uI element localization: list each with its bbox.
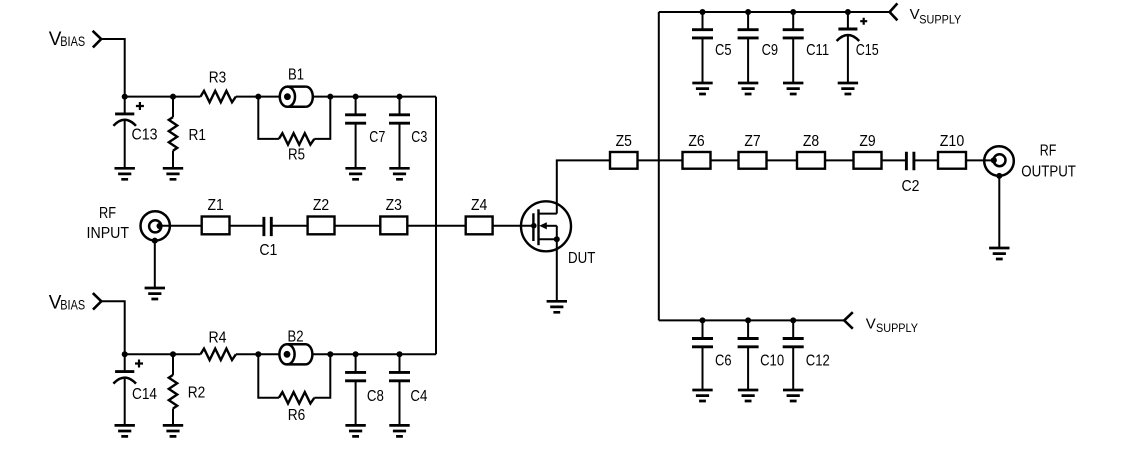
DUT body arrow [539,222,547,229]
svg-text:C3: C3 [411,129,427,146]
svg-text:RF: RF [1040,143,1057,160]
capacitor C12 [783,320,804,390]
capacitor C15 (polarized) [837,12,860,83]
label RF INPUT [87,205,130,242]
svg-text:C6: C6 [715,353,732,370]
ground C6 [692,390,712,401]
svg-text:C10: C10 [760,353,784,370]
DUT body stub [546,225,557,227]
node top bus junction dots [122,94,403,100]
svg-text:Z5: Z5 [616,133,632,150]
svg-text:B1: B1 [288,66,304,83]
capacitor C4 [389,354,410,425]
svg-text:SUPPLY: SUPPLY [919,12,961,26]
DUT drain stub [539,213,557,215]
ground C14 [115,425,135,436]
wire DUT drain up to output line [557,160,610,213]
ground C3 [389,168,409,179]
svg-text:INPUT: INPUT [87,225,130,242]
resistor R6 with parallel loop wires [258,354,330,403]
svg-text:Z3: Z3 [386,197,402,214]
wire top bias bus [125,96,436,98]
capacitor C11 [783,12,804,83]
node bottom supply dots [700,317,797,323]
impedance Z7 [739,152,767,169]
ground C15 [838,83,858,94]
wire C1 to Z2 [271,225,307,227]
wire RF input jack to ground [154,241,156,288]
svg-text:Z2: Z2 [313,197,329,214]
svg-text:C1: C1 [259,242,277,259]
svg-text:C14: C14 [132,386,157,403]
wire RF input jack to Z1 [160,225,202,227]
svg-text:R5: R5 [288,147,305,164]
svg-text:C11: C11 [806,42,829,59]
wire Z9 to C2 [882,159,907,161]
ground C12 [783,390,803,401]
svg-text:R2: R2 [188,384,206,401]
plus sign C13 [136,102,144,110]
wire Z3 to Z4 crossing bias tie [407,225,465,227]
label RF OUTPUT [1021,143,1076,181]
impedance Z2 [308,217,335,235]
wire bottom bias bus [125,353,436,355]
wire Z4 to DUT gate [493,225,534,227]
wire top supply bus [659,11,890,13]
wire bottom supply bus [659,319,844,321]
net label V_SUPPLY (top) [910,6,962,26]
ground C10 [738,390,758,401]
svg-text:C2: C2 [902,178,920,195]
DUT body-source tie [556,226,558,240]
svg-text:B2: B2 [288,329,304,346]
wire Z2 to Z3 [335,225,381,227]
wire V_BIAS bottom feed [101,301,124,354]
svg-text:R4: R4 [209,330,227,347]
svg-text:R1: R1 [189,127,207,144]
plus sign C14 [135,360,143,368]
svg-text:Z6: Z6 [688,133,704,150]
resistor R4 [201,349,236,360]
impedance Z6 [683,152,711,169]
net label V_SUPPLY (bottom) [866,315,918,335]
wire Z5 to Z6 crossing supply line [638,159,683,161]
resistor R3 [201,91,236,102]
svg-text:BIAS: BIAS [60,296,85,312]
svg-text:OUTPUT: OUTPUT [1021,164,1076,181]
ground DUT [547,301,567,312]
ground C5 [692,83,712,94]
wire Z10 to RF output jack [966,159,994,161]
ground RF INPUT [145,288,165,299]
svg-text:Z8: Z8 [803,133,819,150]
connector chevron V_SUPPLY bottom [844,312,853,329]
impedance Z8 [797,152,825,169]
wire vertical supply line [658,12,660,320]
wire V_BIAS top feed [101,39,125,97]
svg-text:R3: R3 [209,70,227,87]
ground C9 [738,83,758,94]
svg-text:C15: C15 [856,42,879,59]
ground C8 [345,425,365,436]
node top supply dots [700,9,851,15]
connector chevron V_SUPPLY top [890,3,898,20]
impedance Z9 [854,152,882,169]
svg-text:V: V [910,6,920,23]
connector chevron V_BIAS top [93,31,102,48]
impedance Z10 [938,152,966,169]
capacitor C8 [345,354,366,425]
wire vertical bias tie line [435,97,437,355]
impedance Z4 [466,217,493,235]
svg-text:C13: C13 [132,127,158,144]
connector RF OUTPUT coax jack [984,146,1014,179]
svg-text:Z10: Z10 [940,133,965,150]
svg-text:C9: C9 [762,42,779,59]
capacitor C14 (polarized) [113,354,136,425]
capacitor C5 [692,12,713,83]
resistor R1 [169,97,177,169]
wire Z6 to Z7 [711,159,739,161]
capacitor C3 [389,97,410,169]
transistor DUT (MOSFET) body circle [521,201,571,251]
ferrite bead B1 [280,87,313,107]
svg-text:BIAS: BIAS [60,33,85,49]
wire C2 to Z10 [914,159,938,161]
ground RF OUTPUT [989,248,1009,259]
net label V_BIAS (top) [49,29,85,50]
svg-text:C8: C8 [367,388,384,405]
svg-text:Z1: Z1 [207,197,223,214]
node bottom bus junction dots [122,351,403,357]
svg-text:Z9: Z9 [859,133,875,150]
node DUT source dot [554,236,560,242]
wire Z1 to C1 [230,225,264,227]
svg-text:DUT: DUT [568,250,596,267]
capacitor C1 (series) [264,217,271,236]
svg-text:Z4: Z4 [471,197,487,214]
svg-text:V: V [866,315,876,332]
impedance Z1 [202,217,230,235]
DUT gate bar [532,213,534,241]
capacitor C9 [738,12,759,83]
svg-text:C12: C12 [806,353,830,370]
ground C4 [389,425,409,436]
capacitor C7 [345,97,366,169]
ground C11 [783,83,803,94]
ferrite bead B2 [279,344,312,364]
impedance Z5 [610,152,638,169]
svg-text:C4: C4 [410,388,427,405]
wire Z8 to Z9 [825,159,854,161]
svg-text:R6: R6 [288,407,306,424]
ground R2 [163,425,183,436]
connector RF INPUT coax jack [141,211,170,243]
wire DUT source to ground [556,239,558,301]
DUT source stub [539,238,557,240]
svg-text:RF: RF [99,205,116,222]
impedance Z3 [380,217,407,235]
node DUT gate dot [531,223,537,229]
svg-text:Z7: Z7 [744,133,760,150]
svg-text:C7: C7 [369,129,385,146]
resistor R5 with parallel loop wires [258,97,330,145]
DUT channel bar [537,209,539,245]
ground C7 [345,168,365,179]
capacitor C13 (polarized) [113,97,136,169]
svg-text:C5: C5 [715,42,732,59]
ground C13 [115,168,135,179]
net label V_BIAS (bottom) [49,292,85,313]
connector chevron V_BIAS bottom [93,293,102,310]
svg-text:SUPPLY: SUPPLY [876,321,918,335]
plus sign C15 [860,18,867,25]
capacitor C2 (series) [906,152,914,171]
capacitor C6 [692,320,713,390]
resistor R2 [169,354,177,425]
ground R1 [163,168,183,179]
capacitor C10 [738,320,759,390]
wire Z7 to Z8 [767,159,798,161]
wire RF output jack to ground [998,176,1000,248]
